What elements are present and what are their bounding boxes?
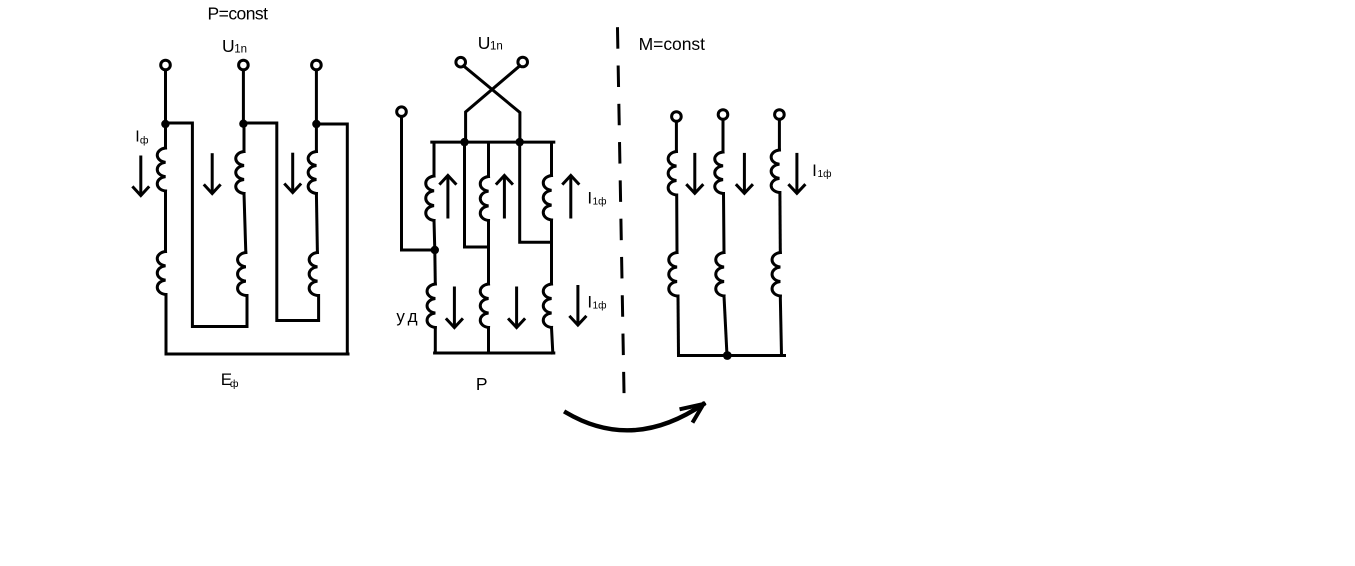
svg-text:1n: 1n [490, 40, 503, 52]
svg-text:ф: ф [230, 378, 239, 390]
svg-text:I: I [812, 161, 817, 180]
svg-text:1ф: 1ф [593, 300, 607, 312]
svg-text:U: U [478, 33, 491, 53]
svg-text:M=const: M=const [639, 34, 706, 54]
svg-text:ф: ф [140, 134, 149, 146]
svg-text:1n: 1n [234, 43, 247, 55]
svg-text:U: U [222, 36, 235, 56]
svg-text:I: I [587, 188, 592, 207]
svg-text:I: I [587, 293, 592, 312]
svg-text:P: P [476, 374, 488, 394]
svg-text:1ф: 1ф [593, 195, 607, 207]
svg-text:1ф: 1ф [818, 168, 832, 180]
svg-text:уд: уд [396, 307, 417, 326]
svg-text:P=const: P=const [208, 4, 269, 24]
